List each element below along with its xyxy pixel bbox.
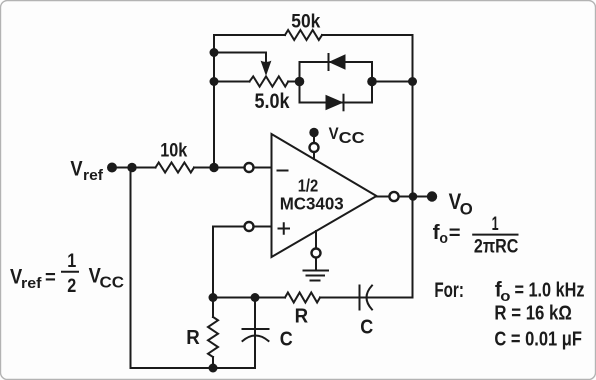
svg-text:1: 1 bbox=[492, 214, 499, 235]
wire top feedback bbox=[214, 34, 413, 36]
node VCC terminal dot bbox=[309, 128, 318, 137]
node VO terminal bbox=[427, 191, 437, 201]
pin VCC circle bbox=[310, 143, 319, 152]
svg-text:MC3403: MC3403 bbox=[280, 194, 344, 214]
node Vref terminal bbox=[107, 163, 117, 173]
wire wiper branch bbox=[214, 53, 266, 64]
svg-text:=: = bbox=[449, 223, 461, 244]
pin non-inverting input circle bbox=[245, 222, 254, 231]
svg-text:C: C bbox=[280, 329, 293, 351]
node diode box left bbox=[295, 77, 305, 87]
capacitor C (vertical) bbox=[254, 298, 256, 369]
node 10k right junction bbox=[209, 163, 218, 172]
svg-text:CC: CC bbox=[339, 130, 365, 147]
resistor 10k bbox=[156, 163, 195, 173]
plus sign bbox=[279, 223, 290, 234]
op-amp U1 1/2 MC3403 bbox=[272, 134, 377, 257]
svg-text:2πRC: 2πRC bbox=[474, 236, 519, 258]
ground pin stub bbox=[315, 231, 317, 271]
wire diode box to right rail bbox=[372, 81, 413, 83]
svg-text:1: 1 bbox=[67, 251, 76, 272]
svg-text:R: R bbox=[295, 305, 309, 328]
svg-text:V: V bbox=[329, 124, 340, 143]
pin inverting input circle bbox=[245, 163, 254, 172]
wire non-inverting branch bbox=[213, 226, 272, 228]
wire output bbox=[400, 196, 433, 198]
svg-text:5.0k: 5.0k bbox=[255, 90, 290, 113]
node wiper junction bbox=[210, 48, 219, 57]
wire input line bbox=[112, 167, 244, 169]
node R top junction bbox=[209, 293, 218, 302]
wire output stub bbox=[377, 196, 389, 198]
resistor R (horizontal) bbox=[285, 293, 320, 303]
wire pot left lead bbox=[214, 81, 250, 83]
node output junction bbox=[409, 192, 418, 201]
wire plus input vertical bbox=[212, 227, 214, 298]
svg-text:C: C bbox=[360, 316, 373, 338]
node C top junction bbox=[251, 293, 260, 302]
node R bottom junction bbox=[209, 364, 218, 373]
wire circle to op-amp bbox=[254, 167, 271, 169]
resistor 50k bbox=[285, 30, 322, 40]
potentiometer 5.0k bbox=[250, 76, 289, 86]
svg-text:ref: ref bbox=[21, 275, 43, 292]
svg-text:o: o bbox=[439, 230, 448, 247]
capacitor C (horizontal) bbox=[359, 286, 361, 310]
pin ground circle bbox=[312, 249, 321, 258]
node pot left junction bbox=[210, 77, 219, 86]
pin output circle bbox=[389, 192, 398, 201]
svg-text:CC: CC bbox=[100, 274, 125, 291]
svg-text:2: 2 bbox=[67, 276, 76, 297]
wire diode bridge box bbox=[300, 62, 373, 103]
node right rail upper bbox=[408, 77, 417, 86]
node diode box right bbox=[367, 77, 377, 87]
wire right rail bbox=[412, 35, 414, 298]
VCC pin stub bbox=[313, 133, 315, 159]
svg-text:R = 16 kΩ: R = 16 kΩ bbox=[494, 302, 572, 324]
potentiometer wiper arrow bbox=[261, 61, 272, 76]
svg-text:O: O bbox=[460, 201, 473, 219]
wire left rail bbox=[131, 168, 256, 369]
svg-text:= 1.0 kHz: = 1.0 kHz bbox=[515, 280, 585, 302]
svg-text:ref: ref bbox=[83, 167, 104, 184]
wire bottom RC line bbox=[213, 297, 413, 299]
resistor R (vertical) bbox=[212, 298, 214, 318]
diode D2 (bottom, pointing right) bbox=[326, 95, 344, 111]
svg-text:10k: 10k bbox=[160, 140, 187, 162]
svg-text:50k: 50k bbox=[291, 12, 320, 33]
node Vref junction bbox=[127, 163, 136, 172]
ground symbol bbox=[304, 270, 329, 272]
svg-text:C = 0.01 μF: C = 0.01 μF bbox=[494, 328, 582, 350]
wire left vertical upper bbox=[213, 35, 215, 168]
svg-text:V: V bbox=[70, 157, 82, 180]
diode D1 (top, pointing left) bbox=[329, 54, 346, 70]
minus sign bbox=[278, 170, 288, 172]
svg-text:=: = bbox=[45, 268, 56, 289]
wire pot right lead bbox=[288, 81, 299, 83]
svg-text:R: R bbox=[186, 326, 200, 349]
svg-text:For:: For: bbox=[434, 279, 464, 302]
